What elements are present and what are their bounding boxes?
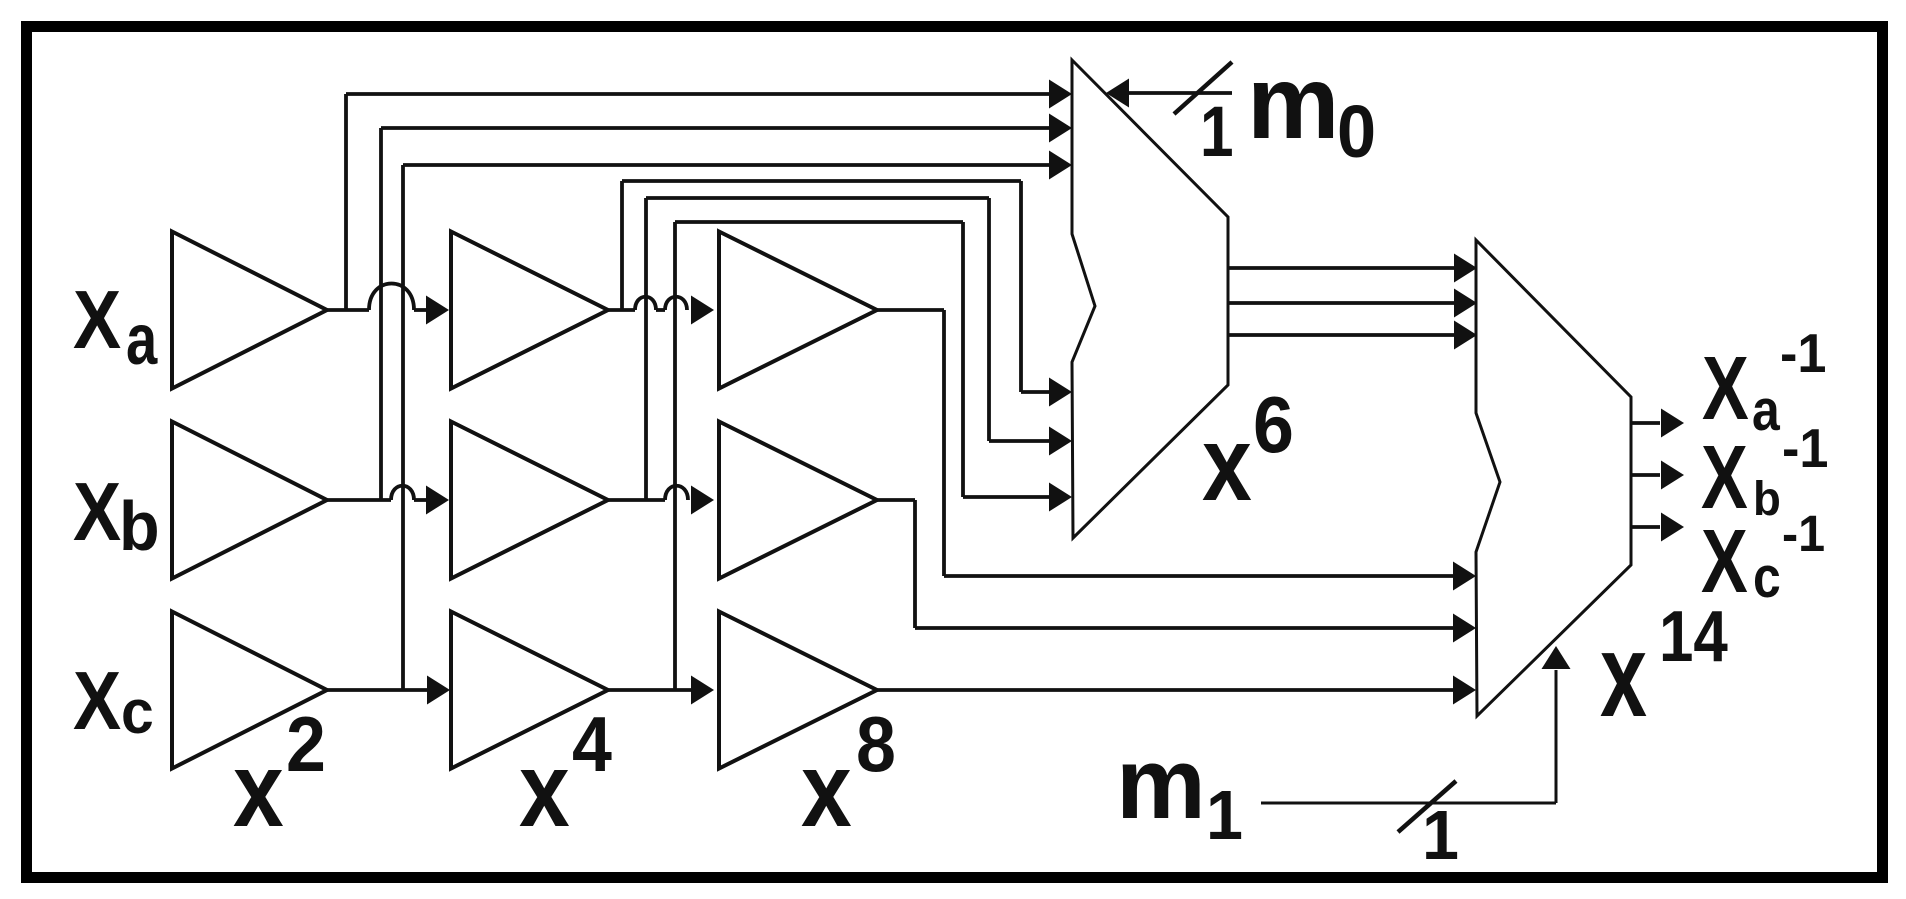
wire x_c^4 to x^8 squarer <box>608 688 692 692</box>
svg-text:x: x <box>233 731 284 849</box>
svg-text:X: X <box>73 655 121 747</box>
wire x_b^2 tap to U1 input 2 <box>379 128 383 500</box>
squarer x^2 row b <box>172 422 327 579</box>
bus width slash 1 (m0) <box>1174 62 1232 114</box>
multiplier block U2 (x^14 mux) <box>1476 240 1631 716</box>
squarer x^4 row c <box>451 612 608 769</box>
wire x_a^4 to x^8 squarer (double hop) <box>608 308 635 312</box>
squarer x^2 row c <box>172 612 327 769</box>
svg-text:-1: -1 <box>1780 323 1826 385</box>
wire U1 output 3 to U2 input 3 <box>1228 333 1455 337</box>
multiplier block U1 (x^6 mux) <box>1072 60 1228 538</box>
svg-text:b: b <box>1753 472 1781 525</box>
svg-text:2: 2 <box>286 700 326 787</box>
svg-text:1: 1 <box>1200 91 1234 171</box>
wire m1 select into U2 <box>1261 802 1556 805</box>
wire x_a^8 to U2 input 4 <box>877 308 944 312</box>
wire x_b^4 to x^8 squarer (hop over riser) <box>608 498 665 502</box>
wire x_c^8 to U2 input 6 <box>877 688 1454 692</box>
svg-text:x: x <box>801 731 852 849</box>
svg-text:a: a <box>1752 379 1781 443</box>
squarer x^4 row b <box>451 422 608 579</box>
wire x_b^8 to U2 input 5 <box>877 498 915 502</box>
wire x_c^2 to x^4 squarer <box>327 688 428 692</box>
svg-text:x: x <box>519 731 570 849</box>
squarer x^8 row b <box>719 422 877 579</box>
svg-text:X: X <box>73 466 121 558</box>
wire output Xa^-1 <box>1631 421 1660 425</box>
svg-text:4: 4 <box>572 700 612 787</box>
svg-text:m: m <box>1116 728 1206 840</box>
svg-text:1: 1 <box>1206 776 1243 854</box>
svg-text:1: 1 <box>1422 796 1459 874</box>
svg-text:c: c <box>1753 546 1781 610</box>
wire x_b^2 to x^4 squarer (hop over riser) <box>327 498 391 502</box>
svg-text:a: a <box>126 299 158 379</box>
svg-text:x: x <box>1202 404 1252 523</box>
svg-text:-1: -1 <box>1782 505 1825 562</box>
wire U1 output 2 to U2 input 2 <box>1228 301 1455 305</box>
wire x_a^2 tap to U1 input 1 <box>344 94 348 310</box>
svg-text:X: X <box>1701 512 1748 612</box>
svg-text:-1: -1 <box>1782 418 1828 480</box>
svg-text:0: 0 <box>1337 91 1376 173</box>
wire m0 select into U1 <box>1106 79 1129 108</box>
squarer x^8 row a <box>719 232 877 389</box>
svg-text:x: x <box>1600 609 1647 742</box>
wire x_c^2 tap to U1 input 3 <box>401 165 405 690</box>
wire x_b^4 tap to U1 input 5 <box>644 198 648 500</box>
squarer x^8 row c <box>719 612 877 769</box>
svg-text:6: 6 <box>1253 380 1294 470</box>
svg-text:X: X <box>1702 339 1749 439</box>
svg-text:X: X <box>73 274 121 366</box>
svg-text:8: 8 <box>856 700 896 787</box>
wire x_a^4 tap to U1 input 4 <box>620 181 624 310</box>
wire x_a^2 to x^4 squarer (hop over risers) <box>327 308 369 312</box>
wire x_c^4 tap to U1 input 6 <box>673 222 677 690</box>
wire output Xb^-1 <box>1631 473 1660 477</box>
squarer x^2 row a <box>172 232 327 389</box>
svg-text:b: b <box>119 487 160 565</box>
svg-text:m: m <box>1247 45 1339 161</box>
squarer x^4 row a <box>451 232 608 389</box>
wire U1 output 1 to U2 input 1 <box>1228 266 1455 270</box>
svg-text:c: c <box>121 677 154 747</box>
wire output Xc^-1 <box>1631 525 1660 529</box>
bus width slash 1 (m1) <box>1398 781 1456 832</box>
